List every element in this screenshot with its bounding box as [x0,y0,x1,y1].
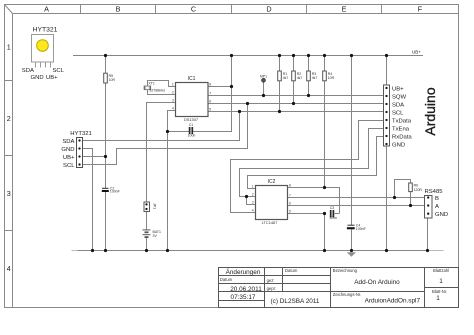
svg-text:1: 1 [252,185,254,189]
node GND rail / RS485 [426,249,429,252]
svg-text:10R: 10R [109,78,116,82]
svg-text:2: 2 [252,193,254,197]
svg-text:SCL: SCL [392,110,404,116]
wire HYT321 UB+ [83,156,106,158]
ground [347,252,356,257]
wire SCL bus [208,111,384,113]
svg-text:7: 7 [209,92,211,96]
node UB+ / R4 [323,54,326,57]
svg-text:4k7: 4k7 [283,76,289,80]
wire GND rail faded start [72,250,78,252]
svg-text:GND: GND [61,147,74,153]
wire jumper JP1 to battery [146,212,148,231]
svg-text:10R: 10R [328,76,335,80]
node UB+ / R3 [307,54,310,57]
connector HYT321 [61,131,91,169]
node B / R6 [393,196,396,199]
svg-text:6: 6 [289,202,291,206]
node VCC / pin8 IC1 [230,85,233,88]
svg-text:4: 4 [172,107,174,111]
svg-text:8: 8 [209,83,211,87]
svg-text:SCL: SCL [53,68,65,74]
svg-text:UB+: UB+ [412,50,421,55]
wire IC1 pin8 VCC [208,86,232,88]
node IC2 VCC / R4 [323,186,326,189]
svg-text:A: A [44,5,49,14]
svg-text:C: C [191,5,196,14]
svg-text:120R: 120R [414,188,423,192]
svg-text:C3: C3 [330,206,335,210]
resistor R2 [292,71,303,81]
node UB+ / R2 [292,54,295,57]
svg-text:1: 1 [439,278,443,285]
svg-text:20.06.2011: 20.06.2011 [230,286,262,293]
svg-text:8: 8 [289,184,291,188]
svg-text:Blatt-Nr.: Blatt-Nr. [432,289,447,294]
sensor HYT321 pictorial [22,27,65,82]
svg-text:SDA: SDA [392,102,404,108]
wire R4 supply filter [324,56,326,188]
svg-text:IC1: IC1 [188,76,196,82]
svg-text:RS485: RS485 [425,189,444,195]
svg-text:6: 6 [209,100,211,104]
svg-text:5: 5 [209,108,211,112]
svg-text:Änderungen: Änderungen [226,268,261,276]
wire SDA bus [208,103,384,105]
svg-text:GND: GND [435,212,448,218]
wire UB+ to Arduino [386,56,388,89]
wire C4 to GND rail [351,229,353,250]
node SDA bus / R1 [278,110,281,113]
resistor R6 terminator [409,183,423,192]
svg-text:7: 7 [289,194,291,198]
wire IC2 pin2 pin3 tie [247,197,256,205]
title block [219,268,459,308]
capacitor C1 [188,123,196,138]
svg-text:DS1307: DS1307 [184,117,198,122]
node GND rail / C4 [350,249,353,252]
wire R3 pullup [308,56,310,96]
wire IC1 pin3 VBAT [147,103,176,203]
svg-text:UB+: UB+ [46,75,58,81]
wire C3 right [335,213,340,215]
svg-text:F: F [418,5,423,14]
wire Arduino GND [386,144,388,251]
svg-text:LTC1487: LTC1487 [262,220,278,225]
wire C1 right to VCC riser [193,56,232,132]
svg-text:TxEna: TxEna [392,126,410,132]
svg-text:C1: C1 [189,123,194,127]
svg-text:TxData: TxData [392,118,412,124]
svg-text:4k7: 4k7 [297,76,303,80]
svg-text:3: 3 [172,99,174,103]
wire IC1 pin4 GND [168,111,176,251]
svg-text:gepr:: gepr: [267,286,277,291]
wire R1 pullup [279,56,281,112]
node GND rail / C2 [104,249,107,252]
svg-text:2: 2 [172,91,174,95]
crystal XT1 [144,82,165,93]
node SQW / MP1 [262,94,265,97]
wire crystal loop bottom IC1 pin2 [148,90,176,95]
svg-text:JP1: JP1 [152,203,156,209]
svg-text:MP1: MP1 [260,74,267,78]
wire R5 branch from rail [105,56,107,189]
node SQW / R3 [307,94,310,97]
wire HYT321 SDA riser [239,112,241,141]
wire crystal loop top IC1 pin1 [148,81,176,87]
node SDA bus / HYT riser [238,110,241,113]
wire TxEna [240,129,384,197]
wire C1 left [168,131,190,133]
svg-text:Blattzahl: Blattzahl [433,268,449,273]
IC1 DS1307 [172,76,211,122]
node GND rail / C1 [166,249,169,252]
wire UB+ top rail [73,55,423,57]
svg-text:B: B [435,196,439,202]
wire GND rail faded tail [428,250,444,252]
svg-text:UB+: UB+ [392,86,404,92]
svg-text:(c) DL2SBA 2011: (c) DL2SBA 2011 [271,298,320,305]
resistor R5 [104,73,116,83]
svg-text:4: 4 [252,209,254,213]
svg-text:100nF: 100nF [110,190,120,194]
capacitor C2 [102,186,120,193]
node UB+ / R1 [278,54,281,57]
svg-text:Bezeichnung: Bezeichnung [333,268,358,273]
wire MP1 drop [263,82,265,96]
svg-text:HYT321: HYT321 [33,27,58,34]
svg-text:3: 3 [252,201,254,205]
frame column letters [44,5,423,14]
wire SQW bus [208,95,384,97]
resistor R4 [323,71,335,81]
svg-text:XT1: XT1 [148,82,154,86]
svg-text:SDA: SDA [22,68,34,74]
node GND rail / IC2 [323,249,326,252]
node SCL bus / HYT riser [246,102,249,105]
battery BAT1 [143,230,162,238]
wire IC2 pin8 VCC [288,188,340,214]
node UB+ / C1 riser [230,54,233,57]
wire GND bottom rail [78,250,429,252]
wire HYT321 SDA [83,112,240,141]
node MP1 measuring point [260,74,267,82]
svg-text:1: 1 [436,295,440,302]
node SCL bus / R2 [292,102,295,105]
wire TxData [231,121,384,213]
svg-text:100nF: 100nF [356,227,366,231]
frame column dividers [81,5,382,14]
node GND rail / BAT1 [145,249,148,252]
node IC2 RE DE tie [245,195,248,198]
svg-text:Arduino: Arduino [422,87,438,135]
wire IC2 pin5 GND to rail [288,214,325,251]
svg-text:1: 1 [7,43,11,52]
svg-text:Add-On Arduino: Add-On Arduino [354,279,400,286]
svg-text:A: A [435,204,439,210]
wire RS485 B line [288,197,425,199]
node GND rail / HYT [91,249,94,252]
node UB+ / R5 [104,54,107,57]
wire RxData [248,137,384,189]
wire C4 branch from rail [351,56,353,226]
node UB+ / C4 [350,54,353,57]
svg-text:SCL: SCL [63,163,75,169]
node IC2 GND / C3 [323,212,326,215]
svg-text:Datum: Datum [285,268,298,273]
svg-text:gez:: gez: [267,278,275,283]
node GND / C1 [166,130,169,133]
frame row numbers [7,43,11,274]
connector RS485 [425,189,449,218]
wire R2 pullup [293,56,295,104]
svg-text:5: 5 [289,210,291,214]
svg-text:2: 2 [7,114,11,123]
capacitor C3 [329,206,337,220]
svg-text:HYT321: HYT321 [70,131,92,137]
svg-text:GND: GND [392,142,405,148]
svg-text:SDA: SDA [62,139,74,145]
wire C2 to GND rail [105,192,107,251]
svg-text:GND: GND [31,75,44,81]
IC2 LTC1487 [252,179,291,225]
svg-text:UB+: UB+ [63,155,75,161]
svg-text:B: B [116,5,121,14]
jumper JP1 [144,202,156,212]
svg-text:1: 1 [172,83,174,87]
connector Arduino [384,85,439,148]
wire HYT321 SCL [83,104,248,165]
svg-text:D: D [266,5,271,14]
svg-text:4k7: 4k7 [312,76,318,80]
resistor R1 [278,71,289,81]
frame row dividers [5,81,13,231]
svg-text:E: E [342,5,347,14]
svg-text:3V: 3V [153,234,158,238]
svg-text:RxData: RxData [392,134,412,140]
svg-text:100n: 100n [188,134,196,138]
wire battery to GND rail [146,237,148,251]
svg-text:100n: 100n [329,216,337,220]
wire RS485 GND [427,214,429,251]
resistor R3 [307,71,318,81]
svg-text:Datum: Datum [220,277,233,282]
node UB+ sensor [104,155,107,158]
node GND rail / Arduino [385,249,388,252]
svg-text:3: 3 [7,189,11,198]
svg-text:ArduionAddOn.spl7: ArduionAddOn.spl7 [365,297,421,304]
svg-text:SQW: SQW [392,94,407,100]
wire R6 terminator [395,180,411,198]
wire RS485 A line [288,205,425,207]
wire HYT321 GND [83,149,93,251]
node UB+ / Arduino [385,54,388,57]
capacitor C4 [347,223,366,230]
svg-text:4: 4 [7,264,11,273]
svg-text:07:35:17: 07:35:17 [231,294,256,301]
node A / R6 [409,204,412,207]
svg-text:Zeichnungs-Nr.: Zeichnungs-Nr. [333,292,361,297]
svg-text:IC2: IC2 [268,179,276,185]
svg-text:32768kHz: 32768kHz [149,89,165,93]
